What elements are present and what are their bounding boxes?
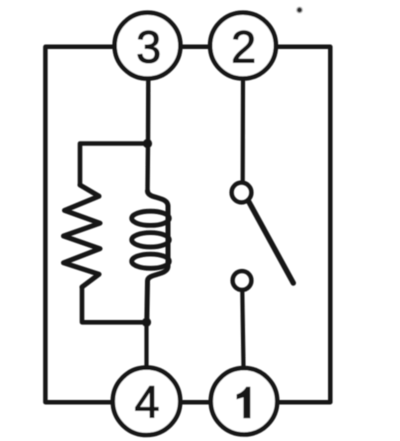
node junction top (dot): [143, 139, 152, 148]
terminal circle 1: [211, 368, 277, 434]
svg-text:3: 3: [136, 21, 161, 72]
terminal circle 4: [113, 368, 180, 435]
wire: coil bottom junction down to terminal 4: [144, 322, 148, 367]
resistor R (zigzag): [64, 185, 101, 287]
wire: terminal 2 down to switch top contact: [241, 79, 246, 181]
outer enclosure box: [45, 47, 330, 402]
terminal circle 3: [115, 13, 181, 79]
wire: switch bottom contact down to terminal 1: [242, 291, 243, 367]
label 1: [237, 387, 251, 419]
wire: terminal 3 to coil junction: [145, 79, 150, 191]
switch top contact circle: [232, 183, 252, 203]
svg-text:2: 2: [231, 21, 256, 72]
svg-text:4: 4: [134, 377, 159, 428]
terminal circle 2: [210, 13, 276, 79]
wire: resistor bottom leg: [82, 287, 147, 322]
speck artifact: [296, 7, 303, 14]
switch bottom contact circle: [233, 271, 252, 290]
switch blade (open): [249, 202, 294, 284]
wire: parallel branch frame: [80, 144, 148, 186]
inductor coil L (loops): [148, 191, 169, 206]
node junction bottom (dot): [142, 318, 151, 327]
